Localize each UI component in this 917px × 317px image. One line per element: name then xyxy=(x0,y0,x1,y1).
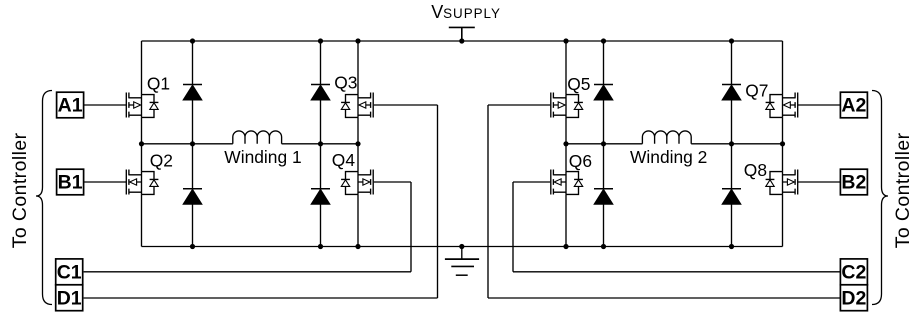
terminal box C1 xyxy=(56,259,83,285)
svg-text:Q8: Q8 xyxy=(744,160,767,180)
wire winding 1 row xyxy=(142,143,359,145)
label VSUPPLY xyxy=(431,2,501,22)
svg-text:Q3: Q3 xyxy=(334,73,357,93)
wire winding 2 row xyxy=(566,143,783,145)
svg-text:Q6: Q6 xyxy=(569,151,592,171)
svg-text:Q1: Q1 xyxy=(147,74,170,94)
wire top rail xyxy=(142,40,783,42)
terminal box B1 xyxy=(57,169,84,195)
diode D3b bottom of column 3 xyxy=(594,189,613,205)
transistor Q5 xyxy=(551,93,583,118)
svg-text:To Controller: To Controller xyxy=(9,132,31,248)
node VSUPPLY symbol xyxy=(449,27,475,41)
svg-text:SUPPLY: SUPPLY xyxy=(443,6,501,21)
transistor Q3 xyxy=(341,93,373,118)
transistor Q4 xyxy=(341,170,373,195)
wire C2 to Q6 gate xyxy=(513,182,840,272)
diode D3a top of column 3 xyxy=(594,85,613,101)
svg-text:Q7: Q7 xyxy=(745,81,768,101)
svg-text:Winding 2: Winding 2 xyxy=(630,147,707,167)
terminal box B2 xyxy=(840,169,867,195)
wire C1 to Q4 gate xyxy=(84,182,411,272)
transistor Q7 xyxy=(766,93,798,118)
wire diode column 3 xyxy=(603,41,605,247)
svg-text:Winding 1: Winding 1 xyxy=(224,147,301,167)
diode D1a top of column 1 xyxy=(183,85,202,101)
terminal box A1 xyxy=(57,92,84,118)
diode D4b bottom of column 4 xyxy=(722,189,741,205)
svg-text:B1: B1 xyxy=(58,172,83,194)
wire D2 to Q5 gate xyxy=(488,105,840,298)
wire A1 to Q1 gate xyxy=(84,104,127,106)
wire left leg of bridge 2 xyxy=(565,41,567,247)
brace right xyxy=(872,91,888,305)
ground xyxy=(445,247,479,276)
brace left xyxy=(36,91,52,305)
wire bottom rail xyxy=(142,246,783,248)
svg-text:A2: A2 xyxy=(841,95,866,117)
svg-text:Q5: Q5 xyxy=(567,74,590,94)
wire A2 to Q7 gate xyxy=(798,104,841,106)
wire right leg of bridge 1 xyxy=(357,41,359,247)
svg-text:C2: C2 xyxy=(841,261,866,283)
diode D2a top of column 2 xyxy=(311,85,330,101)
svg-text:To Controller: To Controller xyxy=(892,132,914,248)
wire diode column 4 xyxy=(731,41,733,247)
terminal box D1 xyxy=(56,285,83,311)
svg-text:B2: B2 xyxy=(841,172,866,194)
svg-text:C1: C1 xyxy=(57,261,82,283)
svg-text:V: V xyxy=(431,2,443,22)
wire left leg of bridge 1 xyxy=(141,41,143,247)
svg-text:D1: D1 xyxy=(57,287,82,309)
wire diode column 2 xyxy=(320,41,322,247)
transistor Q8 xyxy=(766,170,798,195)
terminal box A2 xyxy=(840,92,867,118)
transistor Q1 xyxy=(126,93,158,118)
wire B1 to Q2 gate xyxy=(84,181,127,183)
transistor Q6 xyxy=(551,170,583,195)
inductor Winding 2 xyxy=(642,131,691,144)
inductor Winding 1 xyxy=(233,131,282,144)
transistor Q2 xyxy=(126,170,158,195)
terminal box C2 xyxy=(840,259,867,285)
diode D2b bottom of column 2 xyxy=(311,189,330,205)
wire right leg of bridge 2 xyxy=(782,41,784,247)
wire D1 to Q3 gate xyxy=(84,105,438,298)
wire diode column 1 xyxy=(192,41,194,247)
svg-text:Q4: Q4 xyxy=(332,150,356,170)
svg-text:D2: D2 xyxy=(841,287,866,309)
diode D1b bottom of column 1 xyxy=(183,189,202,205)
diode D4a top of column 4 xyxy=(722,85,741,101)
svg-text:A1: A1 xyxy=(58,95,83,117)
svg-text:Q2: Q2 xyxy=(150,151,173,171)
wire B2 to Q8 gate xyxy=(798,181,841,183)
terminal box D2 xyxy=(840,285,867,311)
